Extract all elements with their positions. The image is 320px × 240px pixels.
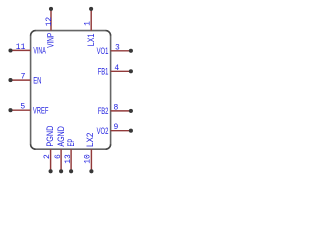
svg-text:9: 9 bbox=[114, 123, 119, 132]
pin 1 wire (LX1) bbox=[90, 9, 92, 31]
svg-text:13: 13 bbox=[64, 154, 73, 164]
pin 6 endpoint dot bbox=[59, 169, 63, 173]
pin 7 wire (EN) bbox=[10, 79, 30, 81]
svg-text:VREF: VREF bbox=[33, 105, 49, 116]
svg-text:FB2: FB2 bbox=[98, 105, 109, 116]
svg-text:12: 12 bbox=[45, 17, 54, 27]
svg-text:10: 10 bbox=[84, 154, 93, 164]
pin 2 endpoint dot bbox=[49, 169, 53, 173]
pin 3 endpoint dot bbox=[129, 49, 133, 53]
svg-text:VO1: VO1 bbox=[97, 45, 109, 56]
pin 5 endpoint dot bbox=[8, 108, 12, 112]
pin 8 wire (FB2) bbox=[111, 110, 131, 112]
pin 10 wire (LX2) bbox=[90, 149, 92, 171]
svg-text:EN: EN bbox=[33, 74, 41, 85]
IC body U1 bbox=[31, 31, 111, 150]
svg-text:3: 3 bbox=[115, 43, 120, 52]
pin 4 wire (FB1) bbox=[111, 70, 131, 72]
pin 11 wire (VINA) bbox=[10, 49, 30, 51]
svg-text:EP: EP bbox=[65, 139, 76, 147]
svg-text:7: 7 bbox=[21, 73, 26, 82]
svg-text:VINP: VINP bbox=[45, 33, 56, 48]
pin 13 wire (EP) bbox=[70, 149, 72, 171]
svg-text:6: 6 bbox=[54, 154, 63, 159]
pin 1 endpoint dot bbox=[89, 7, 93, 11]
svg-text:2: 2 bbox=[43, 154, 52, 159]
pin 9 endpoint dot bbox=[129, 129, 133, 133]
svg-text:11: 11 bbox=[16, 43, 26, 52]
svg-text:5: 5 bbox=[20, 103, 25, 112]
svg-text:8: 8 bbox=[114, 103, 119, 112]
svg-text:LX2: LX2 bbox=[84, 133, 95, 147]
pin 12 endpoint dot bbox=[49, 7, 53, 11]
pin 11 endpoint dot bbox=[8, 48, 12, 52]
pin 8 endpoint dot bbox=[129, 109, 133, 113]
pin 3 wire (VO1) bbox=[111, 50, 131, 52]
pin 13 endpoint dot bbox=[69, 169, 73, 173]
svg-text:1: 1 bbox=[83, 21, 92, 26]
svg-text:4: 4 bbox=[114, 64, 119, 73]
pin 10 endpoint dot bbox=[89, 169, 93, 173]
pin 5 wire (VREF) bbox=[10, 109, 30, 111]
pin 9 wire (VO2) bbox=[111, 130, 131, 132]
pin 2 wire (PGND) bbox=[50, 149, 52, 171]
pin 4 endpoint dot bbox=[129, 69, 133, 73]
pin 7 endpoint dot bbox=[8, 78, 12, 82]
svg-text:LX1: LX1 bbox=[85, 34, 96, 47]
pin 12 wire (VINP) bbox=[50, 9, 52, 31]
svg-text:PGND: PGND bbox=[44, 126, 55, 147]
svg-text:FB1: FB1 bbox=[98, 66, 109, 77]
svg-text:VO2: VO2 bbox=[97, 125, 109, 136]
pin 6 wire (AGND) bbox=[60, 149, 62, 171]
